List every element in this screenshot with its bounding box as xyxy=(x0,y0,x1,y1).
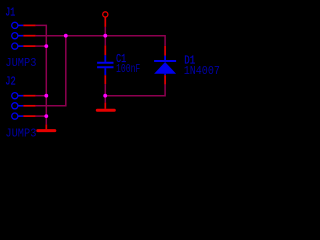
junction J1.2 branch xyxy=(64,34,68,38)
wire net VCC: top horizontal J1.2 to D1 cathode xyxy=(36,36,166,46)
label J1 xyxy=(5,6,15,20)
junction supply/C1 top xyxy=(103,34,107,38)
svg-text:JUMP3: JUMP3 xyxy=(5,56,36,70)
wire net GND: gnd2 stub xyxy=(104,96,106,103)
ground symbol GND2 xyxy=(97,103,114,111)
label C1 xyxy=(116,52,126,66)
junction J1.3 xyxy=(44,44,48,48)
junction J2.1 xyxy=(44,94,48,98)
pin J2.3 xyxy=(23,115,35,117)
wire net GND: J1.1 to vertical bus down to GND1 xyxy=(36,25,47,124)
wire net GND: J2.1 stub xyxy=(36,95,47,97)
ground symbol GND1 xyxy=(38,124,55,130)
supply +V symbol xyxy=(103,12,108,27)
wire net GND: J2.3 stub xyxy=(36,115,47,117)
connector J2 xyxy=(12,93,24,120)
pin J1.1 xyxy=(23,24,35,26)
junction J2.3 xyxy=(44,114,48,118)
diode D1 xyxy=(154,56,176,76)
svg-text:J2: J2 xyxy=(5,75,16,89)
wire net VCC: supply stub xyxy=(104,27,106,36)
wire net GND: J1.3 stub xyxy=(36,45,47,47)
pin D1 cathode xyxy=(164,46,166,56)
pin J1.3 xyxy=(23,45,35,47)
connector J1 xyxy=(12,22,24,49)
label JUMP3 (J2 value) xyxy=(5,127,36,141)
pin D1 anode xyxy=(164,75,166,84)
svg-text:100nF: 100nF xyxy=(116,62,140,76)
label 1N4007 (D1 value) xyxy=(184,64,220,78)
svg-text:J1: J1 xyxy=(5,6,15,20)
label D1 xyxy=(184,54,195,68)
pin J2.1 xyxy=(23,95,35,97)
wire net VCC: branch to J2.2 xyxy=(36,36,66,106)
svg-text:1N4007: 1N4007 xyxy=(184,64,220,78)
label JUMP3 (J1 value) xyxy=(5,56,36,70)
junction C1 bottom/GND2 xyxy=(103,94,107,98)
pin J2.2 xyxy=(23,105,35,107)
svg-text:JUMP3: JUMP3 xyxy=(5,127,36,141)
pin C1 bottom xyxy=(104,75,106,84)
label 100nF (C1 value) xyxy=(116,62,140,76)
capacitor C1 xyxy=(97,55,113,75)
wire net GND: C1 bottom stub xyxy=(104,84,106,96)
pin C1 top xyxy=(104,45,106,55)
wire net GND: C1 bottom to D1 anode xyxy=(105,84,165,95)
pin J1.2 xyxy=(23,35,35,37)
label J2 xyxy=(5,75,16,89)
wire net VCC: C1 top stub xyxy=(104,36,106,46)
